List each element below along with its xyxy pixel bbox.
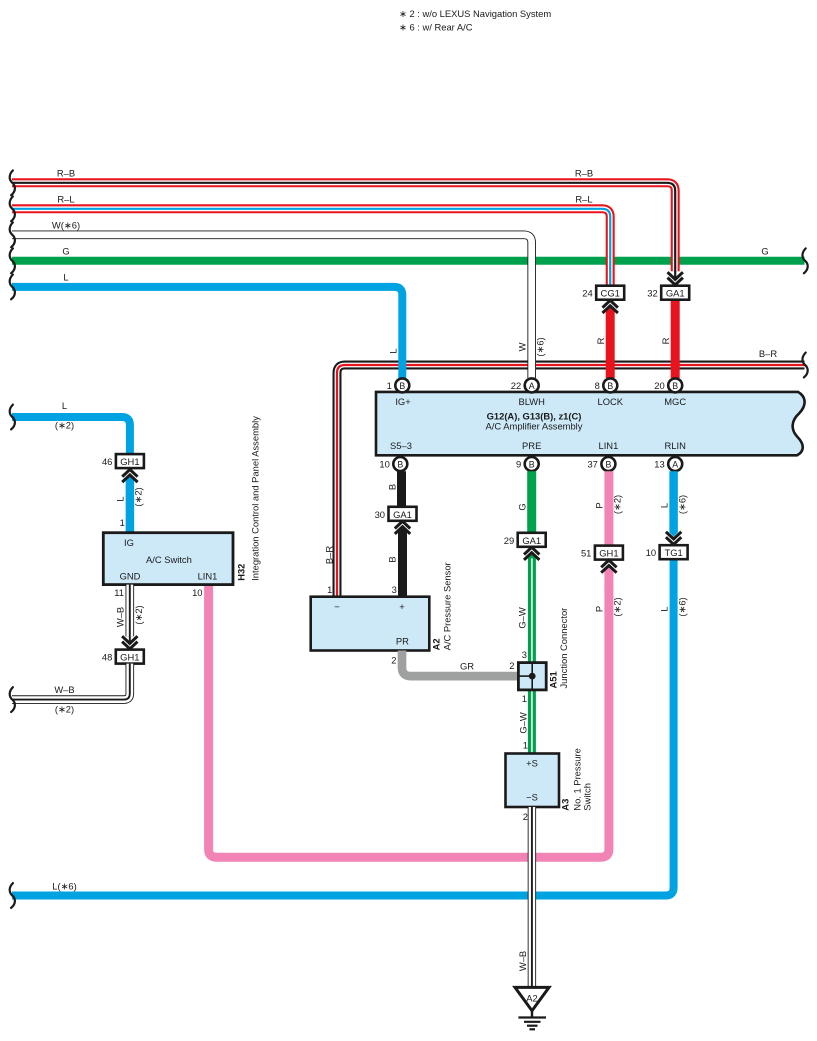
svg-text:R–B: R–B	[575, 168, 593, 179]
svg-text:GR: GR	[460, 660, 474, 671]
svg-text:∗ 6 : w/ Rear A/C: ∗ 6 : w/ Rear A/C	[399, 22, 473, 33]
svg-text:24: 24	[582, 288, 592, 299]
svg-text:9: 9	[516, 459, 521, 470]
svg-text:B: B	[672, 381, 678, 391]
svg-text:∗ 2 : w/o LEXUS Navigation Sys: ∗ 2 : w/o LEXUS Navigation System	[399, 8, 551, 19]
svg-text:37: 37	[587, 459, 597, 470]
svg-text:10: 10	[192, 587, 202, 598]
svg-text:IG: IG	[124, 537, 134, 548]
svg-text:A/C Switch: A/C Switch	[146, 554, 192, 565]
svg-text:2: 2	[391, 654, 396, 665]
svg-text:L: L	[63, 272, 68, 283]
svg-text:A51: A51	[548, 671, 559, 688]
svg-text:B: B	[386, 556, 397, 562]
svg-text:−S: −S	[526, 792, 538, 803]
svg-text:L: L	[62, 400, 67, 411]
svg-text:1: 1	[327, 584, 332, 595]
svg-text:GA1: GA1	[393, 509, 412, 520]
svg-text:1: 1	[387, 380, 392, 391]
svg-text:B–R: B–R	[759, 348, 777, 359]
svg-text:(∗2): (∗2)	[133, 487, 144, 506]
svg-text:3: 3	[522, 649, 527, 660]
svg-text:+S: +S	[526, 758, 538, 769]
svg-text:L: L	[659, 606, 670, 611]
svg-text:GH1: GH1	[120, 456, 139, 467]
svg-text:A2: A2	[526, 992, 537, 1003]
svg-text:A/C Pressure Sensor: A/C Pressure Sensor	[442, 562, 453, 650]
svg-text:B: B	[605, 459, 611, 469]
svg-text:A/C Amplifier Assembly: A/C Amplifier Assembly	[486, 421, 583, 432]
svg-text:(∗6): (∗6)	[676, 495, 687, 514]
svg-text:B: B	[397, 459, 403, 469]
svg-text:B: B	[607, 381, 613, 391]
svg-text:(∗2): (∗2)	[611, 597, 622, 616]
svg-text:R–B: R–B	[57, 168, 75, 179]
svg-text:10: 10	[646, 547, 656, 558]
svg-text:2: 2	[509, 660, 514, 671]
svg-text:IG+: IG+	[395, 396, 411, 407]
svg-text:W: W	[517, 342, 528, 351]
svg-text:3: 3	[392, 584, 397, 595]
svg-text:(∗6): (∗6)	[534, 337, 545, 356]
svg-text:48: 48	[102, 652, 112, 663]
svg-text:PR: PR	[396, 636, 409, 647]
svg-text:L(∗6): L(∗6)	[52, 881, 77, 892]
svg-text:32: 32	[647, 288, 657, 299]
svg-text:8: 8	[595, 380, 600, 391]
svg-text:29: 29	[504, 535, 514, 546]
svg-text:A3: A3	[559, 799, 570, 811]
svg-text:GA1: GA1	[666, 288, 685, 299]
svg-text:Junction Connector: Junction Connector	[558, 608, 569, 689]
svg-text:MGC: MGC	[664, 396, 686, 407]
svg-text:L: L	[115, 496, 126, 501]
svg-text:A: A	[672, 459, 678, 469]
svg-text:Integration Control and Panel: Integration Control and Panel Assembly	[249, 416, 260, 581]
svg-text:(∗2): (∗2)	[611, 495, 622, 514]
svg-text:L: L	[659, 503, 670, 508]
svg-text:W–B: W–B	[54, 684, 74, 695]
svg-text:1: 1	[120, 517, 125, 528]
svg-text:A2: A2	[431, 638, 442, 650]
svg-text:30: 30	[375, 509, 385, 520]
svg-text:G: G	[517, 503, 528, 510]
svg-text:GND: GND	[120, 570, 141, 581]
svg-text:A: A	[529, 381, 535, 391]
svg-text:R: R	[595, 337, 606, 344]
svg-text:LIN1: LIN1	[598, 440, 618, 451]
svg-text:W–B: W–B	[517, 951, 528, 971]
svg-text:(∗2): (∗2)	[55, 419, 74, 430]
svg-text:G: G	[62, 246, 69, 257]
svg-text:B: B	[386, 484, 397, 490]
svg-text:46: 46	[102, 456, 112, 467]
svg-text:1: 1	[522, 693, 527, 704]
svg-text:W(∗6): W(∗6)	[52, 220, 80, 231]
svg-text:B–R: B–R	[324, 546, 335, 564]
svg-text:G–W: G–W	[518, 712, 529, 734]
svg-text:51: 51	[581, 548, 591, 559]
svg-text:CG1: CG1	[601, 288, 620, 299]
svg-text:10: 10	[379, 459, 389, 470]
svg-text:20: 20	[654, 380, 664, 391]
svg-text:P: P	[593, 606, 604, 612]
svg-text:L: L	[387, 348, 398, 353]
svg-text:BLWH: BLWH	[519, 396, 545, 407]
svg-text:(∗2): (∗2)	[55, 704, 74, 715]
svg-text:H32: H32	[236, 564, 247, 581]
svg-text:GH1: GH1	[599, 548, 618, 559]
svg-text:1: 1	[523, 739, 528, 750]
svg-text:2: 2	[523, 811, 528, 822]
svg-text:S5–3: S5–3	[390, 440, 412, 451]
svg-text:R–L: R–L	[57, 194, 74, 205]
svg-text:+: +	[399, 601, 405, 612]
svg-text:G–W: G–W	[517, 607, 528, 629]
svg-text:G: G	[761, 246, 768, 257]
svg-text:11: 11	[114, 587, 124, 598]
svg-text:13: 13	[654, 459, 664, 470]
svg-text:TG1: TG1	[664, 547, 682, 558]
svg-text:GA1: GA1	[522, 535, 541, 546]
svg-text:R–L: R–L	[575, 194, 592, 205]
svg-text:B: B	[529, 459, 535, 469]
svg-text:RLIN: RLIN	[665, 440, 686, 451]
svg-text:LOCK: LOCK	[598, 396, 624, 407]
svg-text:B: B	[399, 381, 405, 391]
svg-text:Switch: Switch	[582, 783, 593, 811]
svg-text:LIN1: LIN1	[198, 570, 218, 581]
svg-text:−: −	[334, 601, 340, 612]
svg-text:PRE: PRE	[522, 440, 541, 451]
svg-text:GH1: GH1	[120, 652, 139, 663]
svg-text:(∗2): (∗2)	[133, 605, 144, 624]
svg-text:(∗6): (∗6)	[676, 597, 687, 616]
svg-text:W–B: W–B	[114, 607, 125, 627]
svg-text:22: 22	[511, 380, 521, 391]
svg-text:P: P	[593, 502, 604, 508]
svg-text:R: R	[660, 337, 671, 344]
